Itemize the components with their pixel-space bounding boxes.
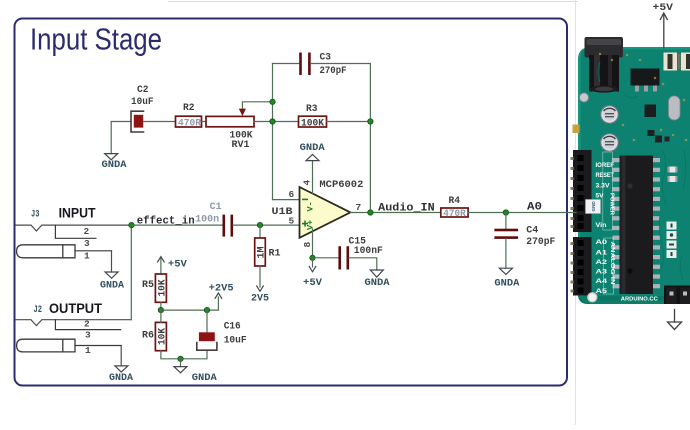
- svg-text:2: 2: [84, 319, 90, 330]
- wire op-amp output: [350, 212, 440, 214]
- ground GNDA under J2: [115, 366, 128, 372]
- resistor R6: [155, 322, 166, 350]
- wire down to GNDA under C2: [110, 122, 112, 154]
- svg-text:C1: C1: [210, 202, 222, 213]
- svg-text:C2: C2: [137, 85, 149, 96]
- resistor R5: [155, 274, 166, 302]
- svg-text:C3: C3: [320, 52, 332, 63]
- svg-text:R3: R3: [306, 104, 318, 115]
- svg-text:IOREF: IOREF: [596, 162, 615, 169]
- silk icon column: [667, 222, 677, 259]
- svg-text:+5V: +5V: [168, 260, 187, 271]
- junction wiper node: [270, 99, 275, 104]
- jack J2 pin1 sleeve line: [75, 345, 121, 347]
- ground GNDA above op-amp (up): [306, 154, 319, 160]
- jack J2 sleeve barrel: [17, 339, 75, 352]
- third icsp post sliver: [688, 288, 690, 305]
- svg-text:RV1: RV1: [232, 140, 250, 151]
- yellow smd: [573, 125, 580, 134]
- svg-text:R2: R2: [183, 103, 195, 114]
- svg-text:4: 4: [302, 180, 313, 186]
- junction R5-R6 node: [158, 307, 163, 312]
- svg-text:270pF: 270pF: [320, 66, 347, 77]
- svg-text:V+: V+: [305, 220, 315, 230]
- smd resistor bank: [664, 53, 690, 71]
- left pin headers: [571, 150, 592, 296]
- svg-text:100K: 100K: [301, 118, 324, 129]
- power arrow +5V top right: [660, 13, 667, 48]
- capacitor C3: [299, 53, 311, 76]
- svg-text:RESET: RESET: [596, 172, 615, 179]
- svg-text:GNDA: GNDA: [100, 281, 124, 292]
- wire C16 top: [206, 310, 208, 332]
- svg-text:A4: A4: [596, 278, 608, 285]
- svg-text:470R: 470R: [178, 118, 201, 129]
- gold vias: [599, 53, 688, 142]
- Arduino board photo: [571, 37, 690, 304]
- photo left edge line: [575, 0, 577, 425]
- svg-text:R5: R5: [142, 280, 154, 291]
- resistor R4: [441, 208, 468, 217]
- pcb body: [578, 47, 690, 304]
- junction ground node: [178, 356, 183, 361]
- wire C3 right: [311, 63, 371, 65]
- op-amp minus marker: [302, 199, 308, 201]
- svg-text:1: 1: [85, 345, 91, 356]
- svg-text:GNDA: GNDA: [300, 143, 325, 154]
- svg-text:7: 7: [356, 202, 362, 213]
- wire R3 right: [327, 121, 371, 123]
- small cap: [579, 93, 588, 102]
- potentiometer RV1: [206, 109, 254, 127]
- svg-text:+2V5: +2V5: [209, 283, 234, 294]
- junction R1 node: [257, 222, 262, 227]
- jack J3 tip line with notch: [16, 225, 132, 231]
- output feedback vertical wire: [369, 64, 371, 213]
- svg-text:2: 2: [84, 226, 90, 237]
- svg-text:ANALOG IN: ANALOG IN: [609, 242, 615, 285]
- wire R1 top: [259, 225, 261, 238]
- svg-text:ARDUINO.CC: ARDUINO.CC: [621, 297, 659, 303]
- resistor R1: [255, 238, 266, 266]
- GND white tag: [586, 200, 601, 214]
- svg-text:10uF: 10uF: [224, 336, 247, 347]
- svg-text:+5V: +5V: [303, 278, 322, 289]
- ground arrow bottom right: [668, 310, 682, 330]
- junction output node: [368, 210, 373, 215]
- svg-text:3: 3: [84, 238, 90, 249]
- power arrow +5V below op-amp: [309, 258, 316, 272]
- svg-text:A0: A0: [527, 202, 542, 214]
- wire pin6 horizontal: [273, 199, 300, 201]
- electrolytic capacitor 1: [600, 105, 619, 124]
- feedback vertical wire: [272, 64, 274, 200]
- resistor R3: [299, 116, 327, 127]
- dc power jack: [585, 37, 624, 93]
- jack J3 pin1 sleeve line: [75, 250, 112, 252]
- jack J3 sleeve barrel: [17, 245, 75, 258]
- wire effect_in to C1: [132, 224, 224, 226]
- wire RV1 wiper up and right: [242, 102, 272, 109]
- svg-text:270pF: 270pF: [526, 237, 555, 248]
- small ic: [645, 105, 657, 118]
- svg-text:5: 5: [289, 215, 295, 226]
- junction pin8 node: [310, 255, 315, 260]
- svg-text:C16: C16: [224, 321, 241, 332]
- svg-text:1: 1: [84, 250, 90, 261]
- jack J3 pin2 contact: [55, 225, 96, 238]
- svg-text:1M: 1M: [256, 247, 267, 259]
- wire C4 bottom: [505, 239, 507, 269]
- wire J2 tip up to input node: [130, 225, 132, 320]
- wire R6 top: [160, 310, 162, 322]
- ground GNDA under C2: [105, 154, 118, 160]
- ground GNDA under R6: [174, 359, 187, 373]
- wire C15 to ground: [349, 258, 377, 270]
- header silk labels: [586, 152, 659, 303]
- mounting hole: [587, 292, 597, 302]
- capacitor C2: [131, 111, 144, 132]
- capacitor C4: [494, 229, 518, 239]
- junction C16 top node: [204, 307, 209, 312]
- svg-text:J2: J2: [34, 305, 43, 316]
- svg-text:100n: 100n: [195, 215, 219, 226]
- jack J2 pin2 contact: [55, 320, 120, 330]
- svg-text:MCP6002: MCP6002: [319, 180, 363, 191]
- jack J2 tip line with notch: [16, 320, 132, 326]
- wire J2 pins to ground: [120, 346, 122, 366]
- wire R5 bottom: [160, 302, 162, 310]
- junction C4 node: [503, 210, 508, 215]
- pcb traces: [598, 62, 686, 280]
- power arrow +5V above R5: [158, 257, 165, 274]
- wire C2 to R2: [144, 121, 176, 123]
- reset-en smd pair: [655, 136, 678, 183]
- wire mid rail to 2V5 arrow: [161, 297, 219, 310]
- voltage regulator: [631, 69, 660, 92]
- pin 4 wire to GNDA: [312, 161, 314, 194]
- ground GNDA under J3: [105, 272, 118, 278]
- svg-text:POWER: POWER: [609, 193, 615, 216]
- svg-text:+5V: +5V: [653, 3, 674, 14]
- wire J3 pins to ground: [111, 251, 113, 272]
- resistor R2: [176, 116, 202, 127]
- wire R4 to A0: [468, 212, 576, 214]
- svg-text:100nF: 100nF: [354, 246, 383, 257]
- op-amp plus marker: [302, 221, 308, 227]
- svg-text:A1: A1: [596, 249, 608, 256]
- electrolytic capacitor 2: [600, 133, 619, 152]
- ATmega DIP-28 chip: [613, 156, 661, 295]
- capacitor C1: [223, 215, 234, 237]
- svg-text:GNDA: GNDA: [365, 278, 390, 289]
- crystal: [669, 96, 681, 120]
- svg-text:8: 8: [302, 242, 313, 248]
- svg-text:GNDA: GNDA: [102, 160, 127, 171]
- svg-text:Audio_IN: Audio_IN: [378, 202, 435, 214]
- capacitor C16: [197, 332, 217, 350]
- power arrow 2V5 down: [257, 286, 264, 291]
- svg-text:GNDA: GNDA: [192, 373, 217, 384]
- schematic sheet border: [15, 19, 568, 386]
- wire R2 to RV1: [202, 121, 207, 123]
- svg-text:6: 6: [289, 189, 295, 200]
- junction RV1-R3 node: [270, 119, 275, 124]
- pin 8 wire down: [312, 229, 314, 258]
- wire C1 to op-amp pin5: [233, 224, 299, 226]
- ground GNDA under C4: [499, 268, 512, 274]
- svg-text:Input Stage: Input Stage: [30, 22, 162, 57]
- svg-text:470R: 470R: [443, 209, 466, 220]
- svg-text:2V5: 2V5: [251, 294, 269, 305]
- wire C4 top: [505, 213, 507, 230]
- wire pin8 to C15: [313, 257, 339, 259]
- wire RV1 right terminal: [254, 121, 299, 123]
- junction input node: [129, 222, 134, 227]
- svg-text:10K: 10K: [157, 328, 168, 345]
- op-amp U1B: [300, 187, 351, 238]
- svg-text:R1: R1: [269, 249, 281, 260]
- ground GNDA right of C15: [370, 270, 383, 277]
- svg-text:GNDA: GNDA: [494, 278, 519, 289]
- svg-text:INPUT: INPUT: [59, 205, 97, 220]
- wire R1 bottom: [259, 266, 261, 287]
- svg-text:GNDA: GNDA: [109, 373, 133, 384]
- wire C2 left to corner: [111, 121, 131, 123]
- capacitor C15: [338, 246, 349, 269]
- svg-text:V-: V-: [305, 201, 315, 211]
- svg-text:R6: R6: [142, 331, 154, 342]
- ICSP header: [664, 286, 690, 305]
- svg-text:C4: C4: [526, 226, 538, 237]
- svg-text:A3: A3: [596, 269, 608, 276]
- svg-text:A0: A0: [596, 239, 608, 246]
- wire R6 bottom to ground rail: [161, 350, 207, 359]
- svg-text:GND: GND: [591, 201, 596, 212]
- svg-text:A2: A2: [596, 259, 608, 266]
- svg-text:OUTPUT: OUTPUT: [49, 301, 103, 316]
- svg-text:J3: J3: [31, 210, 40, 221]
- power arrow +2V5: [215, 293, 222, 298]
- wire C3 left: [273, 63, 300, 65]
- junction R3 right node: [368, 119, 373, 124]
- svg-text:Vin: Vin: [596, 222, 607, 229]
- faint top artifact line: [168, 1, 578, 3]
- svg-text:R4: R4: [449, 196, 461, 207]
- svg-text:10uF: 10uF: [131, 97, 154, 108]
- svg-text:10K: 10K: [157, 280, 168, 297]
- svg-text:3: 3: [85, 330, 91, 341]
